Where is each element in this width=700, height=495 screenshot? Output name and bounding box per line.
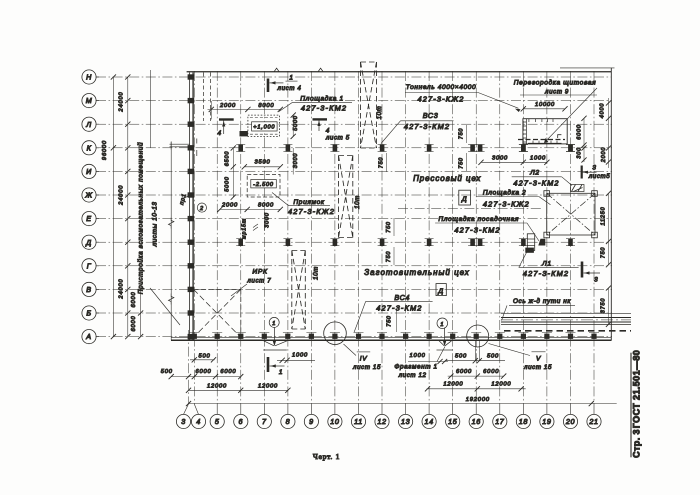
monorail hanger right [444, 328, 446, 342]
axis bubble И [82, 164, 96, 178]
svg-text:4: 4 [196, 417, 201, 426]
svg-text:Приямок: Приямок [293, 199, 324, 206]
svg-text:2000: 2000 [221, 203, 238, 209]
svg-text:500: 500 [487, 353, 499, 359]
left wall outer line [188, 73, 190, 341]
top-right extension line [560, 67, 615, 69]
crane bracing [292, 62, 383, 329]
axis bubble 3 [176, 414, 190, 428]
dim 750 below row К axis 12 [386, 153, 388, 172]
svg-text:6500: 6500 [224, 151, 230, 167]
svg-text:+1,000: +1,000 [253, 125, 275, 131]
svg-text:Тоннель 4000×4000: Тоннель 4000×4000 [406, 84, 477, 91]
bottom wall column axis 16 [474, 334, 479, 339]
dim 750 below row К axis 16 [466, 153, 468, 171]
svg-text:1000: 1000 [292, 353, 308, 359]
svg-text:Е: Е [86, 214, 91, 223]
column row К axis 12 [380, 145, 385, 152]
svg-text:лист 4: лист 4 [277, 85, 302, 92]
axis column 15 line [452, 71, 454, 404]
dim 3000 1000 row [481, 161, 547, 163]
svg-text:19: 19 [542, 417, 551, 426]
svg-text:2: 2 [199, 206, 204, 212]
svg-text:427-3-КМ2: 427-3-КМ2 [376, 303, 422, 312]
svg-text:3750: 3750 [601, 298, 607, 314]
axis bubble 8 [281, 414, 295, 428]
svg-text:8: 8 [286, 417, 291, 426]
svg-text:1000: 1000 [410, 353, 426, 359]
column row Д axis 10 [333, 239, 338, 246]
svg-text:500: 500 [455, 353, 467, 359]
svg-text:10000: 10000 [535, 102, 555, 108]
svg-text:10т: 10т [376, 106, 383, 120]
bottom wall column axis 9 [309, 334, 314, 339]
axis column 6 line [240, 71, 242, 404]
left dim line 6000s [140, 289, 142, 336]
svg-text:427-3-КМ2: 427-3-КМ2 [454, 225, 500, 234]
svg-text:96000: 96000 [102, 140, 108, 160]
axis row В line [96, 288, 612, 290]
svg-text:Л2: Л2 [529, 169, 540, 176]
svg-text:ВС4: ВС4 [394, 293, 410, 302]
column row Д axis 18 [521, 239, 526, 246]
axis row А line [96, 336, 612, 338]
partition top ticks [529, 119, 553, 122]
svg-text:750: 750 [386, 251, 392, 263]
svg-text:750: 750 [386, 221, 392, 233]
svg-text:3500: 3500 [254, 160, 270, 166]
svg-text:18: 18 [519, 417, 528, 426]
axis bubble Б [82, 306, 96, 320]
partition bottom tick line [528, 142, 562, 144]
axis column 16 line [475, 71, 477, 404]
bottom wall column axis 4 [192, 334, 197, 339]
svg-text:Д: Д [461, 196, 467, 203]
label IV лист 15 [357, 351, 370, 353]
svg-text:Пристройка вспомогательных п: Пристройка вспомогательных помещений [137, 142, 145, 294]
dim 6500 vertical [232, 148, 234, 197]
crane bracing panel bay 11-12 rows Н-К [360, 62, 362, 148]
svg-text:Д: Д [437, 288, 443, 295]
svg-text:14: 14 [424, 417, 433, 426]
bottom wall row А thick [171, 339, 612, 341]
break mark row В [169, 294, 174, 305]
axis bubble 12 [375, 414, 389, 428]
monorail axis line [398, 208, 542, 210]
axis column 18 line [522, 71, 524, 404]
column row Д axis 6 [238, 239, 243, 246]
svg-text:24000: 24000 [118, 185, 124, 206]
upper annex line [150, 70, 152, 148]
bottom wall column axis 5 [215, 334, 220, 339]
flag 3 bottom right [581, 262, 584, 278]
beam support ticks [196, 139, 198, 144]
railway tracks [501, 312, 631, 314]
svg-text:лист 7: лист 7 [246, 278, 271, 285]
svg-text:17: 17 [495, 417, 505, 426]
svg-text:ВС3: ВС3 [423, 111, 439, 120]
bottom wall columns [189, 332, 599, 339]
svg-text:3000: 3000 [293, 153, 299, 169]
axis column 12 line [381, 71, 383, 404]
annex leader diagonal [150, 288, 180, 325]
partition room and right dims [478, 98, 611, 168]
elevation box +1,000 [252, 122, 278, 131]
misc left items [170, 139, 207, 213]
svg-text:2000: 2000 [601, 147, 607, 164]
landing platform X [547, 193, 595, 235]
dim row2 500 6000 6000 left [171, 376, 241, 378]
axis column 20 line [570, 71, 572, 404]
monorail circle 1 right [437, 318, 448, 329]
svg-text:Н: Н [86, 73, 92, 82]
svg-text:Черт. 1: Черт. 1 [313, 452, 340, 461]
axis row Ж line [96, 194, 612, 196]
bottom wall row А thin [171, 337, 612, 339]
column row Д axis 8 [286, 239, 291, 246]
svg-text:11250: 11250 [601, 206, 607, 225]
svg-text:500: 500 [161, 369, 173, 375]
svg-text:3: 3 [592, 165, 596, 172]
column axis bubbles [176, 404, 601, 429]
dim 3500 [244, 166, 280, 168]
monorail hanger left [273, 328, 275, 342]
dim 750 above row А axis 12 [395, 309, 397, 332]
expansion joint twin extension lines [474, 340, 476, 362]
svg-text:Д: Д [85, 238, 92, 247]
svg-text:4: 4 [218, 130, 222, 137]
column row Д axis 20 [568, 239, 573, 246]
wall column row Ж [188, 192, 195, 197]
bottom dimension chains [161, 340, 617, 407]
axis row И line [96, 170, 612, 172]
dim 6000 6000 right [448, 375, 504, 377]
annex (пристройка) block [137, 70, 181, 340]
svg-text:Стр. 3: Стр. 3 [632, 429, 642, 458]
axis bubble 10 [328, 414, 342, 428]
axis row К line [96, 147, 612, 149]
bottom wall column axis 6 [238, 334, 243, 339]
flag 3 лист5 [581, 166, 583, 179]
left dimension chains [102, 74, 143, 339]
приямок pit dashed [247, 175, 280, 198]
ИРК room [194, 268, 272, 337]
svg-text:9: 9 [309, 417, 314, 426]
wall column row Д [188, 240, 195, 245]
axis row Б line [96, 312, 612, 314]
svg-text:427-3-КЖ2: 427-3-КЖ2 [418, 95, 465, 104]
axis bubble Л [82, 117, 96, 131]
svg-text:8000: 8000 [258, 103, 274, 109]
axis bubble 16 [469, 414, 483, 428]
top wall row Н [187, 71, 612, 73]
svg-text:-2.500: -2.500 [253, 182, 274, 188]
bottom wall column axis 7 [262, 334, 267, 339]
fragment markers [263, 317, 552, 379]
svg-text:1000: 1000 [530, 156, 546, 162]
bottom wall column axis 8 [285, 334, 290, 339]
bottom wall column axis 12 [379, 334, 384, 339]
twin columns row Д axis 16 [470, 239, 475, 246]
bottom wall column axis 18 [521, 334, 526, 339]
axis bubble К [82, 141, 96, 155]
wall column row Н [188, 74, 195, 79]
svg-text:6000: 6000 [220, 369, 236, 375]
dim 750 above row Д axis 12 [393, 218, 395, 236]
axis bubble 7 [257, 414, 271, 428]
svg-text:7: 7 [262, 417, 267, 426]
svg-text:5000: 5000 [224, 176, 230, 192]
axis row Е line [96, 218, 612, 220]
axis bubble 15 [446, 414, 460, 428]
partition bracket mark [558, 135, 562, 138]
svg-text:300: 300 [577, 147, 583, 159]
svg-text:6000: 6000 [456, 369, 472, 375]
svg-text:6: 6 [238, 417, 243, 426]
column row К axis 18 [521, 145, 526, 152]
dim 500 axes 3-4 [190, 359, 215, 361]
bottom wall column axis 10 [332, 334, 337, 339]
svg-text:Площадка посадочная: Площадка посадочная [438, 215, 519, 223]
750 dimensions at columns [378, 125, 466, 265]
svg-text:10т: 10т [354, 195, 361, 209]
svg-text:3000: 3000 [492, 156, 508, 162]
bottom wall column axis 11 [356, 334, 361, 339]
right dim chain inner 6000 300 [583, 118, 585, 162]
axis bubble 6 [234, 414, 248, 428]
svg-text:750: 750 [601, 247, 607, 259]
wall column row Г [188, 263, 195, 268]
tunnel dashed wall left [203, 73, 205, 122]
dim line 2000 8000 bottom [220, 208, 280, 210]
axis column 14 line [428, 71, 430, 404]
axis row Л line [96, 123, 612, 125]
dim 192000 overall [189, 403, 617, 405]
svg-text:В: В [86, 285, 91, 294]
svg-text:16: 16 [472, 417, 481, 426]
axis bubble 21 [587, 414, 601, 428]
svg-text:V: V [536, 356, 541, 363]
svg-text:лист5: лист5 [588, 173, 611, 180]
axis row Д line [96, 241, 612, 243]
svg-text:3: 3 [594, 277, 598, 284]
svg-text:лист 15: лист 15 [352, 364, 381, 371]
svg-text:Заготовительный цех: Заготовительный цех [364, 268, 470, 277]
svg-text:427-3-КМ2: 427-3-КМ2 [513, 178, 559, 187]
svg-text:2000: 2000 [219, 103, 236, 109]
svg-text:500: 500 [198, 353, 210, 359]
svg-text:Ж: Ж [84, 191, 92, 200]
dim 11250 [608, 193, 610, 241]
axis column 21 line [593, 71, 595, 404]
left dim line 24000 chain [127, 77, 129, 337]
section flag 4 left [219, 118, 234, 120]
partition room outline [523, 119, 567, 144]
axis bubble 18 [516, 414, 530, 428]
svg-text:лист 5: лист 5 [325, 135, 350, 142]
dim 750 right [608, 241, 610, 264]
stair symbol Л1 [525, 248, 534, 253]
axis column 5 line [216, 71, 218, 404]
middle right labels [398, 165, 611, 268]
axis bubble 13 [399, 414, 413, 428]
axis bubble 14 [422, 414, 436, 428]
tunnel dashed wall right [210, 73, 212, 122]
column row К axis 8 [286, 145, 291, 152]
right wall [610, 68, 612, 340]
svg-text:6000: 6000 [577, 124, 583, 140]
svg-text:15: 15 [448, 417, 458, 426]
axis bubble М [82, 94, 96, 108]
bottom wall column axis 13 [403, 334, 408, 339]
column row К axis 10 [333, 145, 338, 152]
annex outer line [170, 142, 172, 340]
svg-text:10: 10 [330, 417, 339, 426]
column row К axis 20 [568, 145, 573, 152]
dim 10000 [523, 108, 565, 110]
svg-text:И: И [86, 167, 92, 176]
svg-text:750: 750 [386, 315, 392, 327]
axis bubble 11 [351, 414, 365, 428]
lower labels and railway [354, 248, 631, 333]
axis column 7 line [263, 71, 265, 404]
dim line 2000 8000 top [208, 108, 282, 110]
svg-text:21: 21 [588, 417, 598, 426]
svg-text:12: 12 [377, 417, 386, 426]
svg-text:6000: 6000 [195, 369, 211, 375]
row axis grid lines [96, 77, 612, 337]
svg-text:427-3-КЖ2: 427-3-КЖ2 [288, 207, 335, 216]
section flag 1 лист 4 top [267, 79, 270, 93]
svg-text:К: К [87, 143, 92, 152]
column row Д axis 12 [380, 239, 385, 246]
svg-text:Перегородка щитовая: Перегородка щитовая [514, 79, 596, 87]
svg-text:11: 11 [354, 417, 363, 426]
axis column 17 line [499, 71, 501, 404]
svg-text:12000: 12000 [207, 383, 227, 389]
svg-text:750: 750 [458, 128, 464, 140]
svg-text:6000: 6000 [483, 369, 499, 375]
bottom wall column axis 20 [568, 334, 573, 339]
axis bubble 20 [563, 414, 577, 428]
svg-text:Прессовый цех: Прессовый цех [413, 174, 481, 183]
axis row М line [96, 100, 612, 102]
svg-text:мр15т: мр15т [242, 218, 248, 239]
left wall inner line [192, 73, 194, 341]
column row К axis 6 [238, 145, 243, 152]
break mark row Е [169, 218, 174, 229]
svg-text:12000: 12000 [258, 383, 278, 389]
axis bubble 17 [493, 414, 507, 428]
dim 750 above row К axis 16 [466, 125, 468, 143]
title underline [630, 353, 632, 458]
wall column row В [188, 287, 195, 292]
svg-text:10т: 10т [313, 266, 320, 280]
monorail circle 1 left [269, 317, 279, 327]
svg-text:6000: 6000 [131, 315, 137, 331]
section flag 4 right + лист 5 [313, 118, 328, 120]
dim 3000 below pit [264, 212, 266, 231]
column row К axis 14 [427, 145, 432, 152]
bottom wall column axis 17 [497, 334, 502, 339]
axis column 4 line [193, 71, 195, 404]
axis bubble 9 [304, 414, 318, 428]
wall column row Е [188, 216, 195, 221]
axis bubble Д [82, 235, 96, 249]
svg-text:192000: 192000 [466, 397, 490, 403]
dim 3750 [608, 288, 610, 324]
wall corner caret 2 [318, 68, 323, 72]
dim 12000 12000 right [427, 388, 526, 390]
partition room corner columns [521, 145, 526, 152]
svg-text:листы 10-13: листы 10-13 [152, 201, 159, 247]
wall column row К [188, 145, 195, 150]
axis column 3 line [188, 330, 190, 404]
axis bubble 4 [191, 414, 205, 428]
titles [313, 350, 642, 461]
svg-text:1: 1 [440, 322, 444, 328]
row К columns [236, 145, 575, 152]
площадка 1 outline [248, 115, 280, 136]
svg-text:Фрагмент 1: Фрагмент 1 [394, 364, 437, 371]
bottom wall column axis 15 [450, 334, 455, 339]
axis bubble В [82, 282, 96, 296]
beam пр1 row К [170, 143, 191, 145]
platform stair hatch corner [240, 131, 248, 136]
axis bubble Ж [82, 188, 96, 202]
column row Д axis 14 [427, 239, 432, 246]
svg-text:13: 13 [401, 417, 410, 426]
box Д blank shop [436, 284, 446, 296]
detail circle V at axis 16 [467, 325, 489, 347]
box Д pressing shop [459, 190, 471, 205]
svg-text:750: 750 [378, 157, 384, 169]
axis row Г line [96, 265, 612, 267]
axis bubble 5 [210, 414, 224, 428]
row axis bubbles [82, 70, 99, 344]
svg-text:А: А [85, 332, 91, 341]
svg-text:3: 3 [181, 417, 186, 426]
svg-text:8000: 8000 [258, 203, 274, 209]
crane bracing panel bay 10-11 rows К-Д [338, 156, 340, 238]
partition heavy dashed [518, 139, 565, 141]
railway heavy dashed edge [504, 330, 631, 332]
wall column row М [188, 98, 195, 103]
svg-text:427-3-КМ2: 427-3-КМ2 [523, 269, 569, 278]
bottom wall column axis 19 [544, 334, 549, 339]
bottom wall column axis 21 [591, 334, 596, 339]
svg-text:лист 12: лист 12 [398, 372, 427, 379]
svg-text:12000: 12000 [443, 382, 463, 388]
row Д columns [236, 239, 575, 246]
svg-text:427-3-КМ2: 427-3-КМ2 [301, 103, 347, 112]
left dim line 96000 [112, 77, 114, 337]
ИРК room dashed [194, 288, 241, 290]
svg-text:М: М [86, 96, 93, 105]
detail circle IV at axis 10 [324, 322, 347, 345]
svg-text:20: 20 [565, 417, 575, 426]
svg-text:12000: 12000 [491, 382, 511, 388]
svg-text:Площадка 1: Площадка 1 [300, 95, 343, 103]
svg-text:1: 1 [289, 74, 293, 81]
axis bubble Е [82, 212, 96, 226]
axis bubble Г [82, 259, 96, 273]
axis column 13 line [405, 71, 407, 404]
svg-text:лист 9: лист 9 [544, 89, 569, 96]
axis bubble 2 [197, 203, 206, 212]
platform 1 and pit [208, 101, 350, 239]
axis column 11 line [358, 71, 360, 404]
